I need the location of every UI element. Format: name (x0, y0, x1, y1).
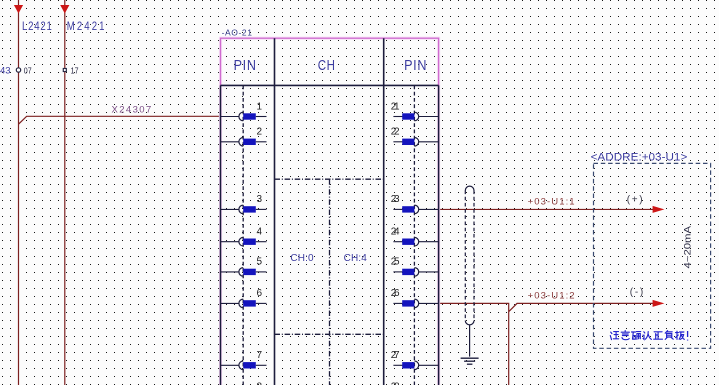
svg-text:27: 27 (391, 350, 400, 361)
svg-text:28: 28 (391, 382, 400, 385)
svg-text:8: 8 (257, 382, 263, 385)
svg-text:1: 1 (257, 101, 263, 112)
svg-text:<ADDRE:+03-U1>: <ADDRE:+03-U1> (591, 151, 688, 163)
svg-text:22: 22 (391, 127, 400, 138)
svg-text:-AO-21: -AO-21 (222, 27, 253, 37)
svg-text:5: 5 (257, 257, 263, 268)
svg-text:43: 43 (0, 65, 11, 76)
svg-text:26: 26 (391, 288, 400, 299)
svg-text:L2421: L2421 (22, 20, 53, 33)
svg-text:07: 07 (24, 66, 32, 76)
svg-text:CH:4: CH:4 (344, 253, 368, 264)
svg-text:X24307: X24307 (112, 105, 153, 116)
svg-text:24: 24 (391, 227, 400, 238)
svg-text:+03-U1:2: +03-U1:2 (528, 291, 575, 302)
svg-text:M2421: M2421 (67, 20, 107, 33)
svg-text:25: 25 (391, 257, 400, 268)
svg-text:6: 6 (257, 288, 263, 299)
svg-text:4: 4 (257, 227, 263, 238)
svg-text:3: 3 (257, 194, 263, 205)
svg-text:(-): (-) (630, 287, 643, 298)
svg-text:7: 7 (257, 350, 263, 361)
svg-text:21: 21 (391, 101, 400, 112)
svg-text:+03-U1:1: +03-U1:1 (528, 197, 575, 208)
svg-text:4~20mA: 4~20mA (683, 225, 694, 268)
svg-text:2: 2 (257, 127, 263, 138)
svg-text:CH: CH (318, 57, 336, 74)
svg-text:17: 17 (71, 66, 79, 76)
svg-text:23: 23 (391, 194, 400, 205)
svg-text:PIN: PIN (404, 56, 427, 73)
svg-text:CH:0: CH:0 (290, 253, 314, 264)
svg-text:PIN: PIN (234, 56, 257, 73)
svg-text:(+): (+) (627, 194, 643, 205)
